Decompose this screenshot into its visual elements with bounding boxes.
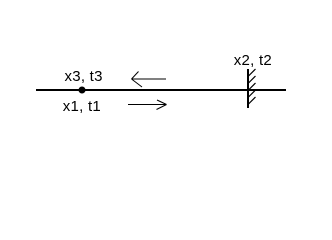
wall hatch 1 bbox=[249, 69, 256, 76]
svg-text:x1, t1: x1, t1 bbox=[63, 98, 101, 115]
left arrow (lower barb) bbox=[132, 79, 143, 87]
right arrow (upper barb) bbox=[157, 100, 167, 105]
wall hatch 5 bbox=[249, 97, 256, 104]
wall hatch 2 bbox=[249, 76, 256, 83]
svg-text:x3, t3: x3, t3 bbox=[65, 68, 103, 85]
wall hatch 3 bbox=[249, 83, 256, 90]
svg-text:x2, t2: x2, t2 bbox=[234, 52, 272, 69]
point marker (dot) bbox=[79, 87, 86, 94]
wall (vertical line) bbox=[247, 69, 249, 108]
right arrow (lower barb) bbox=[157, 105, 167, 110]
string (main horizontal line) bbox=[36, 89, 286, 91]
left arrow (upper barb) bbox=[132, 72, 139, 80]
right arrow (shaft) bbox=[128, 104, 167, 106]
left arrow (shaft) bbox=[132, 78, 167, 80]
wall hatch 4 bbox=[249, 90, 256, 97]
